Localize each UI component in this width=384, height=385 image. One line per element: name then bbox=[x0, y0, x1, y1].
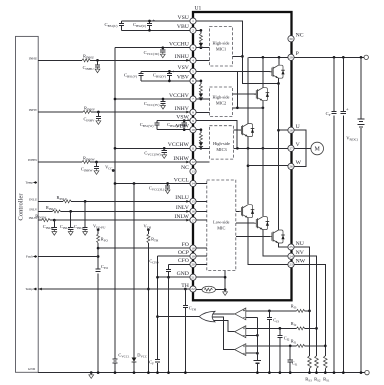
capacitor electrolytic bulk bbox=[341, 112, 346, 114]
capacitor CBS1(W) bbox=[155, 121, 160, 130]
wire GND pin line bbox=[158, 276, 190, 278]
svg-text:NU: NU bbox=[296, 241, 304, 247]
terminal P open circle bbox=[364, 55, 368, 59]
wire INLU line bbox=[38, 200, 190, 202]
svg-text:NC: NC bbox=[181, 165, 189, 171]
svg-text:VSW: VSW bbox=[176, 114, 189, 120]
wire comp2 output to OR gate bbox=[213, 320, 235, 331]
resistor RS1 bbox=[324, 356, 328, 369]
dashed box High-side MIC2 bbox=[210, 87, 233, 117]
pin 27 V bbox=[288, 145, 294, 151]
svg-text:VSU: VSU bbox=[178, 15, 189, 21]
wire NW sense vertical bbox=[294, 265, 325, 373]
OR gate fault logic bbox=[199, 311, 215, 322]
wire pin4 stub bbox=[196, 59, 209, 61]
capacitor CBS2(V) electrolytic bbox=[167, 71, 172, 81]
svg-text:FO: FO bbox=[182, 242, 189, 248]
svg-text:VCCL: VCCL bbox=[174, 177, 190, 183]
wire bootstrap chain V bbox=[196, 81, 201, 99]
wire W phase vertical bbox=[247, 137, 249, 205]
capacitor Cf2 bbox=[279, 327, 282, 330]
svg-text:13: 13 bbox=[191, 170, 195, 174]
wire VCCL feed line bbox=[115, 183, 190, 185]
wire V line to pin27 bbox=[233, 147, 288, 149]
wire pin21 right stub to thermistor ground bbox=[196, 271, 225, 290]
wire P line outside bbox=[294, 56, 365, 58]
wire NU sense vertical bbox=[294, 247, 309, 373]
wire CTH vertical bbox=[184, 289, 186, 373]
svg-text:4: 4 bbox=[192, 58, 194, 62]
svg-text:8: 8 bbox=[192, 110, 194, 114]
resistor RTH bbox=[147, 234, 150, 243]
pin 11 VCCHW bbox=[190, 145, 196, 151]
pin 2 VBU bbox=[190, 27, 196, 33]
pin 6 VBV bbox=[190, 78, 196, 84]
wire low gate V bbox=[236, 222, 255, 224]
wire pin7 stub bbox=[196, 98, 209, 100]
svg-text:GND: GND bbox=[28, 367, 36, 371]
junction rail x168.5 bbox=[167, 371, 170, 374]
wire pin12 stub bbox=[196, 161, 209, 163]
wire VTH vertical / RTH to TH line bbox=[147, 230, 149, 373]
svg-text:11: 11 bbox=[191, 146, 195, 150]
svg-text:Temp: Temp bbox=[25, 181, 33, 185]
svg-text:22: 22 bbox=[191, 287, 195, 291]
svg-text:VCCHV: VCCHV bbox=[169, 93, 190, 99]
svg-text:6: 6 bbox=[192, 79, 194, 83]
svg-text:MIC: MIC bbox=[217, 226, 225, 231]
terminal rail open circle bbox=[365, 370, 369, 374]
wire INHU line bbox=[38, 59, 190, 61]
pin 18 FO bbox=[190, 245, 196, 251]
wire FO line bbox=[97, 247, 100, 250]
svg-text:MIC1: MIC1 bbox=[216, 47, 226, 52]
svg-text:+: + bbox=[152, 19, 155, 24]
wire VCCHU feed line bbox=[115, 47, 190, 49]
transistor IGBT3 W-phase high-side bbox=[239, 124, 254, 137]
wire U phase vertical bbox=[278, 84, 280, 231]
wire CFO-GND to rail vertical bbox=[168, 277, 170, 372]
battery VP(DC) bbox=[357, 119, 364, 127]
pin 17 INLW bbox=[190, 217, 196, 223]
pin 26 W bbox=[288, 163, 294, 169]
pin 9 VSW bbox=[190, 118, 196, 124]
svg-text:1: 1 bbox=[192, 19, 194, 23]
diode bootstrap DU bbox=[199, 43, 203, 47]
svg-text:18: 18 bbox=[191, 246, 195, 250]
svg-text:INHW: INHW bbox=[173, 156, 189, 162]
pin 20 CFO bbox=[190, 261, 196, 267]
capacitor Cf1 bbox=[289, 345, 292, 348]
pin 21 GND bbox=[190, 274, 196, 280]
capacitor CINHV bbox=[97, 111, 100, 114]
svg-text:5: 5 bbox=[192, 70, 194, 74]
capacitor CINHU bbox=[96, 59, 99, 62]
pin 3 VCCHU bbox=[190, 45, 196, 51]
ground symbol below rail bbox=[90, 371, 93, 374]
wire pin16 stub bbox=[196, 210, 207, 212]
resistor bootstrap RW bbox=[199, 133, 202, 142]
dashed box High-side MIC3 bbox=[210, 126, 234, 159]
pin 12 INHW bbox=[190, 159, 196, 165]
svg-text:Controller: Controller bbox=[18, 193, 25, 221]
junction rail x185.4 bbox=[184, 371, 187, 374]
ground symbol comparator reference bbox=[254, 360, 262, 362]
wire INLW line bbox=[38, 219, 190, 221]
capacitor CINLW bbox=[53, 219, 56, 222]
svg-text:7: 7 bbox=[192, 97, 194, 101]
svg-text:9: 9 bbox=[192, 119, 194, 123]
pin 23 NW bbox=[288, 261, 294, 267]
resistor RINHW bbox=[82, 161, 90, 164]
svg-text:20: 20 bbox=[191, 263, 195, 267]
wire Rf3 line bbox=[246, 310, 310, 312]
transistor IGBT1 U-phase high-side bbox=[270, 65, 285, 78]
capacitor CVCC1 bbox=[112, 359, 117, 363]
wire Rf2 line bbox=[246, 327, 317, 329]
comparator 3 bbox=[235, 344, 246, 356]
resistor RINLV bbox=[52, 210, 60, 213]
svg-text:OCP: OCP bbox=[178, 250, 189, 256]
svg-text:M: M bbox=[315, 147, 321, 153]
transistor IGBT6 low-side right bbox=[270, 230, 285, 243]
wire V phase vertical bbox=[262, 101, 264, 216]
svg-text:INHV: INHV bbox=[175, 106, 190, 112]
svg-text:Temp: Temp bbox=[25, 287, 33, 291]
capacitor CFO bbox=[96, 269, 101, 272]
svg-text:+: + bbox=[172, 70, 175, 75]
wire Fault line bbox=[97, 255, 100, 258]
wire INLV line bbox=[38, 210, 190, 212]
svg-text:15: 15 bbox=[191, 200, 195, 204]
svg-text:25: 25 bbox=[289, 245, 293, 249]
svg-text:INLV: INLV bbox=[29, 208, 37, 212]
resistor Rf1 bbox=[297, 344, 305, 347]
wire OCP line and CF vertical bbox=[158, 255, 190, 257]
resistor RS2 bbox=[315, 356, 319, 369]
svg-text:U: U bbox=[296, 124, 300, 130]
wire MIC3 gate wire to IGBT3 bbox=[233, 129, 241, 131]
pin 13 NC bbox=[190, 168, 196, 174]
wire U line to pin28 bbox=[279, 129, 288, 131]
wire VBV line pin6 bbox=[141, 80, 190, 82]
node VFO-PU terminal bbox=[97, 228, 100, 231]
svg-text:INHW: INHW bbox=[28, 158, 38, 162]
resistor bootstrap RV bbox=[199, 84, 202, 93]
svg-text:W: W bbox=[296, 160, 302, 166]
svg-text:VBU: VBU bbox=[177, 24, 189, 30]
svg-text:VCCHU: VCCHU bbox=[169, 42, 189, 48]
capacitor CBS2(W) electrolytic bbox=[182, 121, 187, 130]
wire NV route middle emitter bbox=[263, 230, 288, 257]
svg-text:10: 10 bbox=[191, 128, 195, 132]
wire pin3 stub bbox=[196, 47, 209, 49]
wire DVCC vertical from VCCL bbox=[133, 182, 136, 185]
svg-text:23: 23 bbox=[289, 263, 293, 267]
diode bootstrap DW bbox=[199, 142, 203, 146]
wire MIC2 VS output bbox=[233, 107, 263, 109]
svg-text:INLV: INLV bbox=[176, 205, 190, 211]
svg-text:High-side: High-side bbox=[213, 141, 230, 146]
ground arrow at thermistor bbox=[223, 290, 228, 296]
wire INHV line bbox=[38, 111, 190, 113]
wire comp3 minus input bbox=[246, 352, 258, 354]
svg-text:CFO: CFO bbox=[178, 258, 189, 264]
pin 22 TH bbox=[190, 286, 196, 292]
svg-text:24: 24 bbox=[289, 254, 293, 258]
capacitor CP bbox=[331, 112, 336, 114]
wire VSW route pin9 down bbox=[196, 121, 237, 149]
junction rail x134 bbox=[133, 371, 136, 374]
pin 8 INHV bbox=[190, 109, 196, 115]
wire comp3 output to OR gate bbox=[210, 317, 234, 350]
pin 30 NC bbox=[288, 36, 294, 42]
wire TH Temp line bbox=[38, 288, 190, 290]
wire VFO-PU to FO net vertical bbox=[97, 230, 99, 373]
capacitor CF bbox=[155, 360, 160, 362]
wire electrolytic branch vertical bbox=[342, 57, 344, 372]
svg-text:16: 16 bbox=[191, 210, 195, 214]
svg-text:P: P bbox=[296, 51, 299, 57]
wire battery branch vertical bbox=[360, 57, 362, 372]
svg-text:19: 19 bbox=[191, 254, 195, 258]
wire pin19 stub bbox=[196, 255, 207, 257]
pin 28 U bbox=[288, 127, 294, 133]
wire VSV route pin5 to V line / IGBT1 gate line bbox=[196, 72, 242, 108]
svg-text:NV: NV bbox=[296, 250, 305, 256]
wire OR output to CF node bbox=[158, 316, 200, 318]
pin 24 NV bbox=[288, 253, 294, 259]
capacitor Cf3 bbox=[268, 310, 271, 313]
resistor RINHV bbox=[83, 111, 91, 114]
wire comp1 inputs bbox=[245, 310, 247, 312]
transistor IGBT2 V-phase high-side bbox=[254, 88, 269, 101]
junction rail x98.1 bbox=[97, 371, 100, 374]
svg-text:3: 3 bbox=[192, 46, 194, 50]
dashed box High-side MIC1 bbox=[210, 27, 233, 67]
svg-text:14: 14 bbox=[191, 182, 195, 186]
wire MIC1 gate wire to IGBT1 bbox=[242, 71, 270, 73]
wire Rf1 line bbox=[246, 345, 325, 347]
wire V motor lead bbox=[294, 147, 311, 149]
svg-text:27: 27 bbox=[289, 146, 293, 150]
capacitor CVCC(3L) bbox=[165, 184, 170, 188]
wire MIC1 VS output bbox=[233, 55, 243, 57]
resistor Rf2 bbox=[297, 327, 305, 330]
resistor RINHU bbox=[82, 59, 90, 62]
capacitor CCFO bbox=[166, 264, 171, 277]
wire CP branch vertical bbox=[333, 57, 335, 372]
wire CFO line bbox=[169, 263, 190, 265]
wire VCCHW feed line bbox=[115, 147, 190, 149]
capacitor CINLV bbox=[69, 210, 72, 213]
wire pin14 stub bbox=[196, 183, 207, 185]
pin 10 VBW bbox=[190, 127, 196, 133]
capacitor CVCC(3W) bbox=[162, 148, 167, 152]
resistor bootstrap RU bbox=[199, 34, 202, 43]
svg-text:30: 30 bbox=[289, 37, 293, 41]
capacitor CINLU bbox=[84, 200, 87, 203]
svg-text:NC: NC bbox=[296, 33, 304, 39]
comparator 2 bbox=[235, 326, 246, 338]
svg-text:2: 2 bbox=[192, 28, 194, 32]
wire NW route left emitter bbox=[248, 218, 288, 265]
wire VSV line pin5 bbox=[141, 70, 190, 72]
svg-text:MIC3: MIC3 bbox=[216, 147, 226, 152]
node VCC terminal bbox=[112, 169, 115, 172]
wire pin18 stub bbox=[196, 247, 207, 249]
pin 16 INLV bbox=[190, 208, 196, 214]
junction rail x148.4 bbox=[147, 371, 150, 374]
wire low gate U bbox=[236, 210, 240, 212]
svg-text:17: 17 bbox=[191, 218, 195, 222]
wire pin8 stub bbox=[196, 111, 209, 113]
wire VCC rail vertical bbox=[114, 48, 116, 373]
svg-text:INHU: INHU bbox=[29, 56, 38, 60]
transistor IGBT5 low-side middle bbox=[254, 217, 269, 230]
svg-text:U1: U1 bbox=[195, 6, 202, 12]
wire pin17 stub bbox=[196, 219, 207, 221]
wire bootstrap chain W bbox=[196, 130, 201, 149]
svg-text:MIC2: MIC2 bbox=[216, 100, 226, 105]
wire U motor lead bbox=[294, 130, 306, 166]
svg-text:26: 26 bbox=[289, 165, 293, 169]
wire INHW line bbox=[38, 161, 190, 163]
svg-text:VSV: VSV bbox=[178, 65, 190, 71]
wire MIC2 gate wire to IGBT2 bbox=[233, 93, 257, 95]
wire VSU line pin1 to bootstrap caps bbox=[122, 20, 190, 22]
capacitor CTH bbox=[183, 305, 188, 307]
resistor RFO bbox=[97, 234, 100, 243]
pin 19 OCP bbox=[190, 253, 196, 259]
wire VBW line pin10 bbox=[157, 129, 190, 131]
svg-text:+: + bbox=[346, 108, 349, 113]
wire low gate W bbox=[236, 236, 270, 238]
pin 15 INLU bbox=[190, 198, 196, 204]
wire pin15 stub bbox=[196, 200, 207, 202]
pin 25 NU bbox=[288, 244, 294, 250]
wire P stub to IGBT2 collector bbox=[262, 57, 264, 87]
svg-text:TH: TH bbox=[181, 283, 189, 289]
svg-text:VCCHW: VCCHW bbox=[168, 142, 190, 148]
wire IGBT1 emitter to U node bbox=[278, 78, 280, 83]
svg-text:INLW: INLW bbox=[174, 214, 189, 220]
pin 7 VCCHV bbox=[190, 96, 196, 102]
pin 29 P bbox=[288, 54, 294, 60]
wire VSU internal route pin1 to U emitter bbox=[196, 21, 278, 84]
junction rail x115 bbox=[114, 371, 117, 374]
svg-text:29: 29 bbox=[289, 55, 293, 59]
thermistor on TH pin bbox=[196, 289, 202, 291]
wire bootstrap chain U bbox=[196, 30, 201, 47]
wire VCCHV feed line bbox=[115, 98, 190, 100]
junction rail x157.5 bbox=[156, 371, 159, 374]
transistor IGBT4 low-side left bbox=[239, 205, 254, 218]
resistor RINLW bbox=[42, 219, 50, 222]
pin 14 VCCL bbox=[190, 180, 196, 186]
comparator 1 bbox=[235, 308, 246, 320]
pin 5 VSV bbox=[190, 68, 196, 74]
svg-text:INHU: INHU bbox=[175, 54, 189, 60]
capacitor CBS2(U) electrolytic bbox=[147, 21, 152, 30]
node VTH terminal bbox=[147, 228, 150, 231]
pin 4 INHU bbox=[190, 57, 196, 63]
diode bootstrap DV bbox=[199, 94, 203, 98]
svg-text:INLU: INLU bbox=[175, 195, 189, 201]
IC U1 body bbox=[193, 12, 292, 300]
capacitor CVCC(3U) bbox=[160, 48, 165, 52]
svg-text:VBV: VBV bbox=[177, 75, 190, 81]
controller box bbox=[16, 36, 39, 372]
svg-text:12: 12 bbox=[191, 160, 195, 164]
wire P stub to IGBT1 collector bbox=[278, 57, 280, 65]
resistor Rf3 bbox=[297, 309, 305, 312]
wire W line to pin26 bbox=[248, 165, 288, 167]
wire GND bottom rail bbox=[38, 372, 365, 374]
diode DVCC bbox=[132, 358, 137, 362]
svg-text:VBW: VBW bbox=[176, 124, 190, 130]
svg-text:High-side: High-side bbox=[213, 94, 230, 99]
pin 1 VSU bbox=[190, 18, 196, 24]
svg-text:21: 21 bbox=[191, 275, 195, 279]
capacitor CINHW bbox=[95, 161, 98, 164]
svg-text:NW: NW bbox=[296, 258, 306, 264]
wire pin11 stub bbox=[196, 147, 209, 149]
wire VBU line pin2 to bootstrap caps bbox=[122, 29, 190, 31]
resistor RINLU bbox=[63, 200, 71, 203]
resistor RS3 bbox=[308, 356, 312, 369]
wire P stub to IGBT3 collector bbox=[247, 57, 249, 123]
wire VSW line pin9 bbox=[157, 120, 190, 122]
svg-text:High-side: High-side bbox=[213, 41, 230, 46]
svg-text:Fault: Fault bbox=[26, 255, 33, 259]
wire pin20 stub bbox=[196, 263, 207, 265]
dashed box Low-side MIC bbox=[207, 180, 236, 271]
wire comp1 output to OR gate bbox=[213, 313, 235, 315]
svg-text:Low-side: Low-side bbox=[213, 220, 229, 225]
wire internal P rail bbox=[248, 56, 288, 58]
wire NU route right emitter bbox=[279, 243, 288, 247]
svg-text:INHV: INHV bbox=[29, 108, 38, 112]
wire NV sense vertical bbox=[294, 256, 316, 372]
wire comp2 minus input bbox=[246, 334, 258, 336]
capacitor CBS1(U) bbox=[119, 21, 124, 30]
motor M bbox=[311, 142, 324, 155]
wire comparator reference vertical bbox=[256, 318, 258, 373]
svg-text:28: 28 bbox=[289, 128, 293, 132]
capacitor CVCC(3V) bbox=[160, 99, 165, 103]
svg-text:GND: GND bbox=[177, 271, 189, 277]
svg-text:INLU: INLU bbox=[29, 198, 38, 202]
capacitor CBS1(V) bbox=[138, 71, 143, 81]
